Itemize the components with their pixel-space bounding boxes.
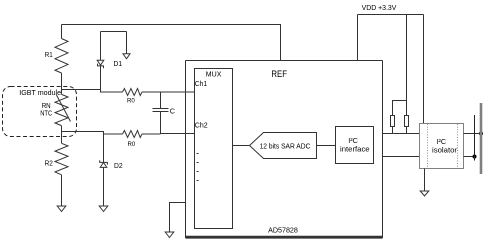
svg-text:R2: R2	[45, 159, 53, 168]
wire VDD to pull-ups	[406, 15, 408, 101]
arrow terminal right of D1	[123, 32, 130, 59]
wire D2 branch	[103, 134, 105, 162]
block I2C interface	[336, 127, 374, 164]
VDD rail	[358, 14, 424, 16]
diode D1 (zener)	[97, 60, 104, 68]
svg-text:R0: R0	[128, 141, 136, 148]
resistor R0 (lower)	[123, 131, 143, 138]
svg-text:D2: D2	[114, 161, 123, 170]
wire SCL rail	[383, 133, 420, 135]
MUX box	[195, 69, 233, 229]
ground arrow below D2	[99, 206, 108, 212]
ground arrow below R2	[57, 206, 66, 212]
wire top rail from R1 top to REF pin	[62, 25, 281, 61]
svg-text:C: C	[170, 106, 175, 115]
block 12 bits SAR ADC	[250, 133, 317, 159]
svg-text:isolator: isolator	[432, 146, 458, 155]
wire isolator SCL out	[464, 133, 482, 135]
svg-text:Ch1: Ch1	[195, 81, 207, 88]
resistor pull-up 2	[405, 116, 409, 127]
junction dot SCL bus	[479, 132, 483, 136]
wire D1 cathode to Ch1 row	[100, 66, 102, 92]
thermistor RN/NTC	[55, 90, 71, 132]
ground tap on left of AD57828	[165, 203, 185, 238]
resistor R2	[55, 132, 68, 207]
resistor pull-up 1	[391, 116, 395, 127]
wire ADC to I2C interface	[317, 145, 336, 147]
wire pull-up 1 to SCL	[392, 127, 394, 134]
bus line SCL vertical	[480, 103, 483, 174]
wire Ch2 row	[62, 132, 123, 135]
svg-text:MUX: MUX	[206, 69, 222, 78]
svg-text:NTC: NTC	[40, 109, 52, 118]
svg-text:interface: interface	[340, 145, 370, 154]
wire Ch1 row	[62, 90, 123, 93]
wire Ch1 row to MUX	[142, 91, 195, 93]
svg-text:AD57828: AD57828	[268, 227, 298, 234]
IGBT module dashed box	[3, 87, 77, 137]
svg-text:R0: R0	[127, 97, 135, 104]
wire D2 to ground	[103, 167, 105, 206]
resistor R0 (upper)	[123, 89, 143, 96]
mux channel dots	[197, 154, 199, 181]
bus line SDA vertical	[474, 115, 476, 161]
junction dot SDA bus	[473, 155, 477, 159]
IC I2C isolator	[420, 124, 464, 169]
svg-text:REF: REF	[271, 69, 287, 80]
wire D1 anode lead	[100, 32, 102, 61]
resistor R1	[55, 25, 68, 90]
ground below isolator	[420, 169, 429, 197]
wire Ch2 row to MUX	[142, 133, 161, 135]
wire D1 loop top	[101, 31, 127, 33]
wire pull-up bracket	[393, 101, 407, 116]
capacitor C	[153, 92, 169, 134]
wire pull-up 2 to SCL	[406, 127, 408, 134]
IC AD57828 outer box	[186, 61, 383, 239]
wire isolator SDA out	[464, 156, 475, 158]
wire SDA rail	[383, 156, 420, 158]
svg-text:R1: R1	[45, 50, 53, 59]
wire VDD to AD57828	[357, 15, 359, 61]
wire MUX out to ADC	[233, 145, 250, 147]
svg-text:Ch2: Ch2	[195, 122, 208, 129]
svg-text:D1: D1	[114, 59, 123, 68]
svg-text:VDD +3.3V: VDD +3.3V	[362, 3, 397, 12]
diode D2 (zener)	[100, 160, 108, 167]
wire VDD to isolator	[423, 15, 425, 124]
svg-text:12 bits SAR ADC: 12 bits SAR ADC	[260, 141, 311, 150]
svg-text:I²C: I²C	[437, 137, 447, 146]
svg-text:IGBT module: IGBT module	[19, 88, 61, 97]
